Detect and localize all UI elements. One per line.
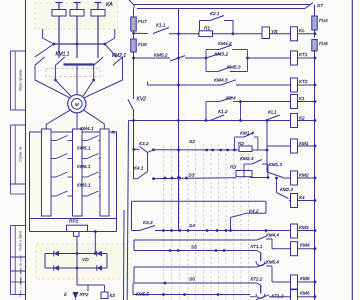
svg-text:RP2: RP2 — [80, 292, 89, 297]
svg-text:К4.2: К4.2 — [249, 209, 259, 215]
svg-text:S7: S7 — [317, 3, 323, 9]
svg-text:КТ2: КТ2 — [299, 79, 308, 85]
svg-text:КМ4.4: КМ4.4 — [266, 233, 279, 238]
svg-text:KV2: KV2 — [137, 97, 147, 103]
svg-text:КМ4: КМ4 — [300, 243, 310, 249]
svg-text:КМ5.1: КМ5.1 — [77, 146, 91, 152]
svg-text:КМ5: КМ5 — [300, 276, 310, 282]
svg-text:КТ1.1: КТ1.1 — [251, 244, 263, 249]
svg-text:КМ2.4: КМ2.4 — [240, 156, 254, 162]
svg-text:FU7: FU7 — [138, 19, 147, 24]
svg-text:S4: S4 — [189, 223, 195, 229]
svg-text:КТ1.2: КТ1.2 — [272, 293, 284, 298]
svg-text:КМ3.1: КМ3.1 — [77, 183, 91, 189]
svg-text:R2: R2 — [238, 141, 244, 146]
svg-text:К3: К3 — [110, 293, 116, 298]
svg-text:КМ6.1: КМ6.1 — [77, 164, 91, 170]
svg-text:КМ5.3: КМ5.3 — [227, 64, 241, 70]
svg-text:S5: S5 — [191, 245, 197, 251]
svg-text:Подп. и дата: Подп. и дата — [19, 278, 23, 297]
svg-text:KL: KL — [299, 28, 305, 34]
svg-text:КМ5.5: КМ5.5 — [136, 292, 149, 297]
svg-text:FU6: FU6 — [319, 41, 328, 46]
svg-text:М: М — [75, 102, 79, 108]
svg-text:КТ1: КТ1 — [299, 52, 308, 58]
svg-text:КМ1.3: КМ1.3 — [269, 162, 282, 167]
svg-text:КМ1.1: КМ1.1 — [56, 52, 70, 58]
svg-text:S6: S6 — [189, 277, 195, 283]
svg-text:KL1: KL1 — [268, 110, 277, 116]
svg-text:КМ6: КМ6 — [300, 291, 310, 297]
svg-text:К1.2: К1.2 — [218, 109, 228, 115]
svg-text:К3.4: К3.4 — [226, 95, 236, 101]
svg-text:FU4: FU4 — [319, 18, 328, 23]
svg-text:Перв. примен.: Перв. примен. — [19, 69, 23, 92]
svg-text:S2: S2 — [189, 139, 195, 145]
svg-text:К2.1: К2.1 — [210, 11, 220, 17]
svg-text:КМ4.2: КМ4.2 — [218, 41, 232, 47]
svg-text:КТ2.2: КТ2.2 — [251, 277, 263, 282]
svg-text:К3.2: К3.2 — [139, 141, 149, 147]
svg-text:К3.3: К3.3 — [143, 220, 153, 226]
svg-text:К1.1: К1.1 — [156, 22, 166, 28]
svg-text:S3: S3 — [189, 173, 195, 179]
svg-text:FU8: FU8 — [138, 42, 147, 47]
svg-text:R3: R3 — [230, 165, 236, 170]
svg-text:R1: R1 — [204, 25, 210, 31]
svg-text:R: R — [112, 130, 116, 136]
svg-text:КМ2.1: КМ2.1 — [112, 53, 126, 59]
svg-text:Подп. и дата: Подп. и дата — [19, 231, 23, 251]
svg-text:КМ4.1: КМ4.1 — [80, 126, 94, 132]
svg-text:Справ. №: Справ. № — [19, 146, 23, 162]
svg-text:КМ4.3: КМ4.3 — [214, 78, 228, 84]
svg-text:КМ5.2: КМ5.2 — [154, 52, 168, 58]
svg-text:К4.1: К4.1 — [134, 166, 144, 172]
svg-text:КА: КА — [106, 2, 113, 8]
svg-text:RP1: RP1 — [69, 218, 79, 224]
svg-text:КМ2.3: КМ2.3 — [280, 187, 293, 192]
svg-text:КМ3.2: КМ3.2 — [215, 51, 229, 57]
svg-text:VD: VD — [82, 257, 89, 263]
svg-text:КМ5.4: КМ5.4 — [266, 260, 279, 265]
